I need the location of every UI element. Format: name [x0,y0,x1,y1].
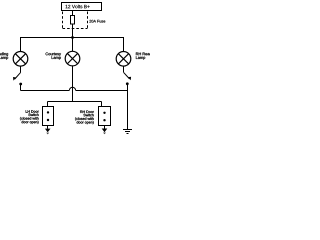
wire courtesy lamp down through crossover [72,66,74,102]
lamp courtesy [65,51,80,66]
wire down to RH door switch [101,102,103,108]
switch RH bottom contact dot [126,82,129,85]
label Courtesy Lamp [46,52,61,59]
wire supply bus [20,37,124,39]
wire return run (right part) [76,90,128,92]
wire lower distribution run to door switches [48,101,102,103]
RH door switch contact dots [103,112,105,122]
wire from fuse to bus junction [72,24,74,38]
lamp RH reading lamp [116,52,131,67]
switch RH reading lamp switch (open lever with arrow) [124,72,132,80]
wire bus to LH reading lamp [20,38,22,52]
wire bus to courtesy lamp [72,38,74,52]
junction dot at bus [71,36,74,39]
label 20A Fuse [89,20,105,23]
label LH Door Switch [20,110,39,124]
label RH Reading Lamp [136,52,157,59]
ground arrow below LH door switch [45,126,51,135]
fuse holder (dashed box) [63,12,88,29]
label RH Door Switch [75,111,94,125]
LH door switch contact dots [47,111,49,121]
label LH Reading Lamp [0,52,8,59]
battery source 12 Volts B+ box [62,3,102,11]
switch LH reading lamp switch (open lever with arrow) [13,73,21,81]
wire RH lamp to switch [123,66,125,73]
wire crossover hop over courtesy lamp wire [69,87,75,90]
wire return run (left part) [21,90,70,92]
wire from B+ box to fuse [72,11,74,16]
wire from LH switch contact down [20,84,22,91]
wire LH lamp to switch [20,66,22,73]
earth ground symbol [123,130,132,134]
LH door switch box [43,107,54,126]
wire down to LH door switch [47,102,49,107]
wire bus to RH reading lamp [123,38,125,52]
fuse F1 [71,16,75,25]
RH door switch box [99,107,111,126]
switch LH bottom contact dot [19,83,22,86]
label 12 Volts B+ [66,5,90,9]
wire RH switch contact to ground [127,84,129,129]
ground arrow below RH door switch [102,126,108,134]
lamp LH reading lamp [13,52,28,67]
